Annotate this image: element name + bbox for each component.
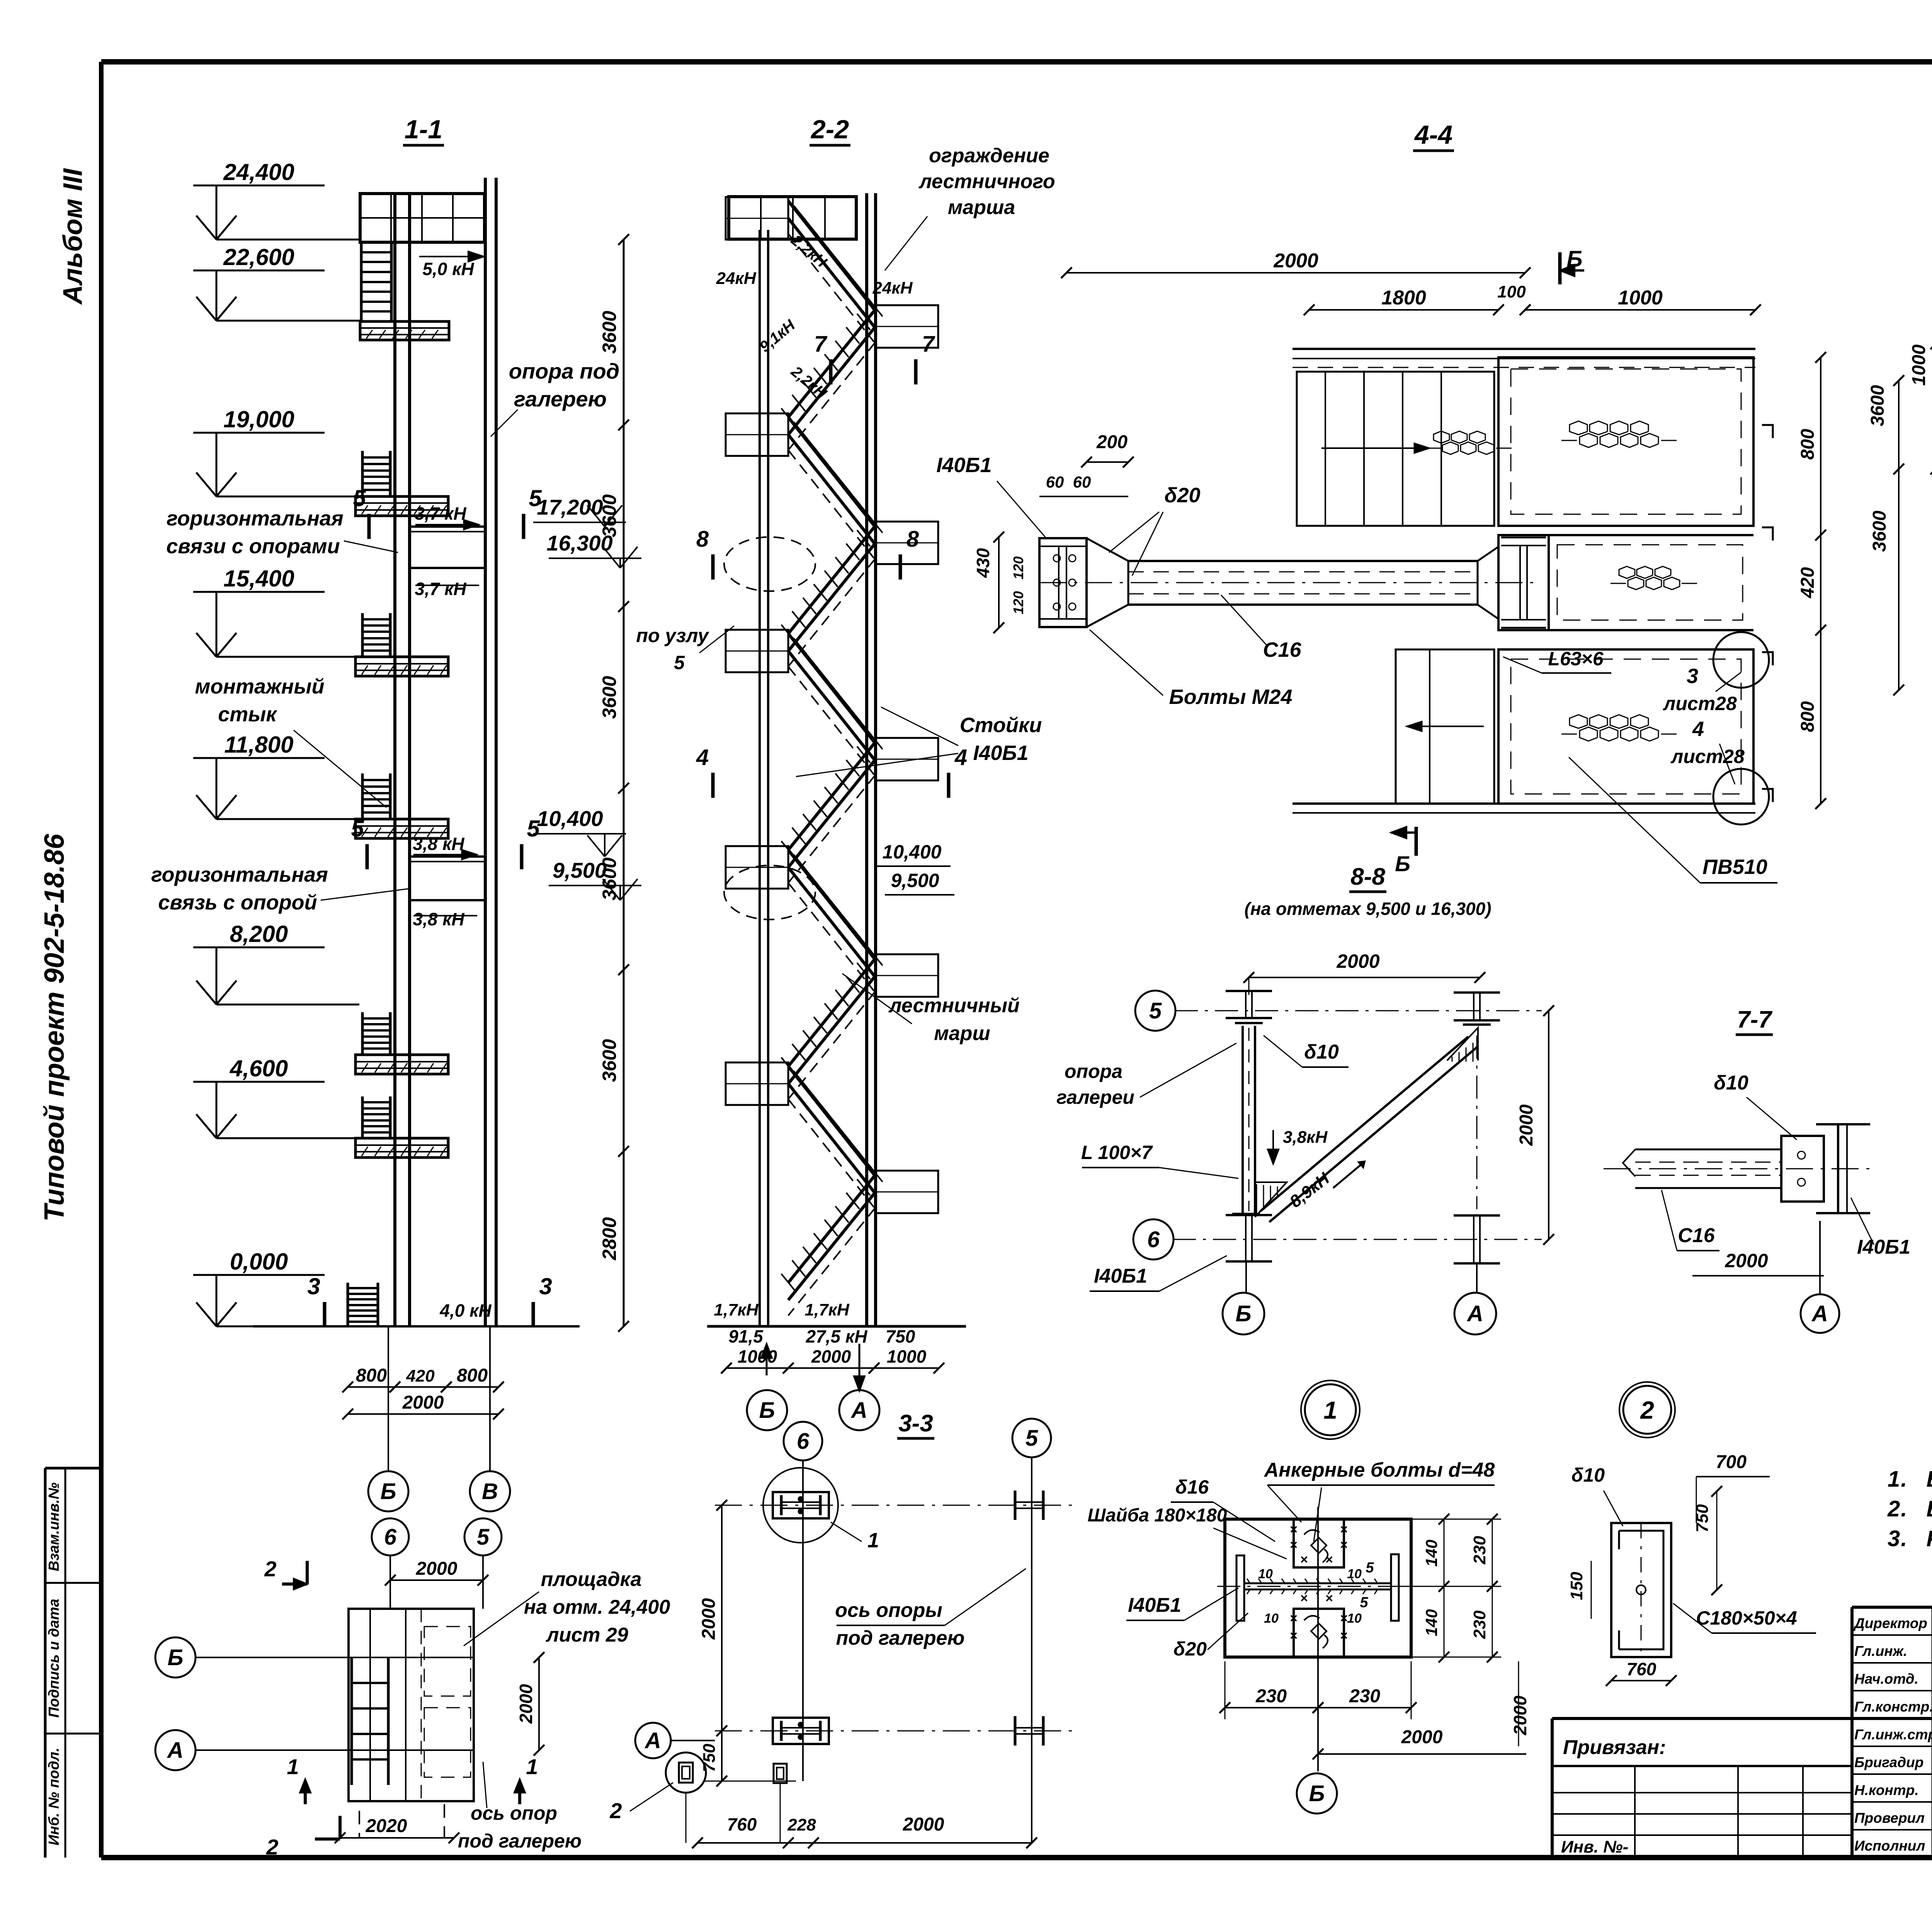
svg-text:1000: 1000 xyxy=(1618,287,1663,309)
svg-text:1: 1 xyxy=(526,1754,538,1779)
svg-text:430: 430 xyxy=(973,548,993,578)
svg-text:120: 120 xyxy=(1010,591,1026,614)
svg-text:1: 1 xyxy=(867,1529,879,1552)
svg-text:2000: 2000 xyxy=(1725,1250,1768,1271)
svg-text:2000: 2000 xyxy=(1510,1695,1530,1735)
svg-text:на отм. 24,400: на отм. 24,400 xyxy=(524,1596,670,1618)
svg-text:галереи: галереи xyxy=(1056,1086,1134,1108)
svg-text:3,7 кН: 3,7 кН xyxy=(415,503,466,524)
svg-text:760: 760 xyxy=(727,1814,757,1834)
svg-text:140: 140 xyxy=(1422,1609,1440,1636)
svg-text:под галерею: под галерею xyxy=(458,1830,582,1852)
svg-text:δ10: δ10 xyxy=(1571,1464,1605,1486)
svg-text:3: 3 xyxy=(307,1273,320,1299)
svg-text:2000: 2000 xyxy=(903,1814,944,1835)
svg-text:А: А xyxy=(1811,1301,1828,1326)
svg-text:150: 150 xyxy=(1567,1572,1586,1600)
svg-text:140: 140 xyxy=(1422,1540,1440,1567)
svg-text:3600: 3600 xyxy=(1869,510,1890,552)
svg-text:горизонтальная: горизонтальная xyxy=(167,507,344,530)
svg-text:L63×6: L63×6 xyxy=(1548,648,1604,670)
svg-text:700: 700 xyxy=(1716,1452,1747,1472)
svg-text:×: × xyxy=(1300,1591,1308,1606)
svg-text:2: 2 xyxy=(609,1798,622,1823)
svg-text:марша: марша xyxy=(948,196,1015,219)
svg-text:8: 8 xyxy=(696,527,709,552)
svg-text:6: 6 xyxy=(384,1525,397,1550)
svg-text:×: × xyxy=(1300,1552,1308,1567)
svg-text:δ20: δ20 xyxy=(1173,1638,1207,1660)
svg-text:×: × xyxy=(1290,1628,1298,1643)
svg-text:2020: 2020 xyxy=(366,1816,407,1836)
svg-text:1: 1 xyxy=(287,1754,299,1779)
svg-text:3600: 3600 xyxy=(599,311,620,354)
svg-text:С16: С16 xyxy=(1678,1224,1715,1247)
svg-text:230: 230 xyxy=(1470,1536,1489,1565)
svg-text:4-4: 4-4 xyxy=(1414,120,1452,150)
svg-text:3: 3 xyxy=(539,1273,552,1299)
svg-text:6: 6 xyxy=(797,1429,810,1454)
svg-text:Исполнил: Исполнил xyxy=(1854,1838,1925,1854)
svg-text:4: 4 xyxy=(954,745,967,770)
svg-text:2000: 2000 xyxy=(699,1598,719,1640)
svg-text:6: 6 xyxy=(1147,1227,1160,1252)
svg-text:Гл.инж.стр: Гл.инж.стр xyxy=(1854,1727,1932,1742)
svg-text:I40Б1: I40Б1 xyxy=(1128,1594,1181,1616)
svg-text:Н.контр.: Н.контр. xyxy=(1854,1782,1918,1798)
svg-text:230: 230 xyxy=(1349,1686,1380,1707)
svg-text:монтажный: монтажный xyxy=(195,675,324,698)
svg-text:3600: 3600 xyxy=(599,676,620,719)
svg-text:2000: 2000 xyxy=(402,1392,444,1413)
svg-text:Инв. №-: Инв. №- xyxy=(1561,1837,1628,1856)
svg-text:Гл.инж.: Гл.инж. xyxy=(1854,1643,1907,1659)
svg-text:×: × xyxy=(1290,1611,1298,1626)
svg-text:15,400: 15,400 xyxy=(223,566,294,592)
svg-text:I40Б1: I40Б1 xyxy=(973,741,1028,765)
svg-text:С180×50×4: С180×50×4 xyxy=(1696,1607,1797,1629)
svg-text:2: 2 xyxy=(264,1557,276,1581)
svg-text:8: 8 xyxy=(906,527,919,552)
svg-text:5: 5 xyxy=(353,485,366,511)
svg-text:Инб. № подл.: Инб. № подл. xyxy=(46,1747,62,1845)
svg-text:площадка: площадка xyxy=(541,1568,642,1591)
svg-text:4: 4 xyxy=(1692,717,1704,741)
svg-text:5: 5 xyxy=(477,1525,490,1550)
svg-text:Проверил: Проверил xyxy=(1854,1810,1925,1826)
svg-text:420: 420 xyxy=(1798,567,1818,598)
svg-text:галерею: галерею xyxy=(514,387,607,411)
svg-text:Подпись и дата: Подпись и дата xyxy=(46,1599,62,1718)
svg-text:3-3: 3-3 xyxy=(898,1410,933,1437)
svg-text:ПВ510: ПВ510 xyxy=(1702,855,1767,879)
svg-text:5: 5 xyxy=(1149,998,1162,1023)
svg-text:5: 5 xyxy=(1360,1594,1368,1611)
svg-text:24,400: 24,400 xyxy=(223,159,294,185)
svg-text:δ10: δ10 xyxy=(1304,1041,1339,1063)
svg-text:Б: Б xyxy=(1395,852,1410,876)
svg-text:120: 120 xyxy=(1010,556,1026,580)
svg-text:1: 1 xyxy=(1323,1396,1337,1424)
svg-text:10: 10 xyxy=(1347,1611,1362,1626)
svg-text:×: × xyxy=(1325,1591,1333,1606)
svg-text:δ16: δ16 xyxy=(1175,1476,1209,1498)
svg-text:60: 60 xyxy=(1073,473,1091,491)
svg-text:Шайба 180×180: Шайба 180×180 xyxy=(1088,1505,1227,1526)
svg-text:3,8кН: 3,8кН xyxy=(1283,1128,1328,1147)
svg-text:10: 10 xyxy=(1258,1567,1273,1581)
svg-text:11,800: 11,800 xyxy=(224,732,293,758)
svg-text:3,7 кН: 3,7 кН xyxy=(415,579,466,599)
svg-text:1800: 1800 xyxy=(1381,287,1426,309)
svg-text:800: 800 xyxy=(1798,429,1818,460)
svg-text:750: 750 xyxy=(1693,1504,1712,1533)
svg-text:Гл.констр.: Гл.констр. xyxy=(1854,1699,1932,1715)
svg-text:С16: С16 xyxy=(1263,638,1301,661)
svg-text:L 100×7: L 100×7 xyxy=(1081,1142,1153,1163)
svg-text:А: А xyxy=(644,1728,661,1753)
svg-text:3,8 кН: 3,8 кН xyxy=(413,909,464,929)
svg-text:ось опоры: ось опоры xyxy=(835,1599,942,1622)
svg-text:опора: опора xyxy=(1065,1061,1122,1082)
svg-text:60: 60 xyxy=(1046,473,1064,491)
svg-text:Бригадир: Бригадир xyxy=(1854,1754,1923,1770)
svg-text:В: В xyxy=(482,1479,498,1504)
svg-text:2000: 2000 xyxy=(811,1346,851,1367)
svg-text:δ10: δ10 xyxy=(1714,1072,1748,1094)
svg-text:I40Б1: I40Б1 xyxy=(1857,1236,1910,1258)
svg-text:по узлу: по узлу xyxy=(636,625,709,646)
svg-text:марш: марш xyxy=(934,1022,990,1045)
svg-text:лист 29: лист 29 xyxy=(545,1624,628,1646)
svg-text:1. Все швы h4, кроме огов: 1. Все швы h4, кроме оговоренных. xyxy=(1888,1467,1932,1492)
svg-text:24кН: 24кН xyxy=(872,279,913,297)
svg-text:760: 760 xyxy=(1627,1659,1656,1679)
svg-text:1000: 1000 xyxy=(887,1346,927,1367)
svg-text:8,200: 8,200 xyxy=(230,921,288,947)
svg-text:Альбом III: Альбом III xyxy=(58,168,88,305)
svg-text:800: 800 xyxy=(1798,701,1818,732)
svg-text:22,600: 22,600 xyxy=(223,244,294,270)
svg-text:2000: 2000 xyxy=(1273,250,1318,272)
svg-text:4,600: 4,600 xyxy=(230,1056,288,1081)
svg-text:×: × xyxy=(1290,1538,1298,1552)
svg-text:91,5: 91,5 xyxy=(728,1326,764,1346)
svg-text:5: 5 xyxy=(527,816,540,841)
svg-text:Привязан:: Привязан: xyxy=(1563,1736,1666,1759)
svg-text:800: 800 xyxy=(457,1365,488,1386)
svg-text:Типовой проект 902-5-18.86: Типовой проект 902-5-18.86 xyxy=(39,833,70,1222)
svg-text:800: 800 xyxy=(356,1365,387,1386)
svg-text:2000: 2000 xyxy=(1401,1727,1443,1747)
svg-text:×: × xyxy=(1325,1552,1333,1567)
svg-text:опора под: опора под xyxy=(509,359,620,383)
svg-text:3600: 3600 xyxy=(599,857,620,900)
svg-text:связи с опорами: связи с опорами xyxy=(166,535,340,558)
svg-text:3,8 кН: 3,8 кН xyxy=(413,834,464,854)
svg-text:2000: 2000 xyxy=(1516,1104,1537,1146)
svg-text:Б: Б xyxy=(167,1645,183,1670)
svg-text:750: 750 xyxy=(700,1744,719,1772)
svg-text:10: 10 xyxy=(1347,1567,1362,1581)
svg-text:24кН: 24кН xyxy=(716,269,756,288)
svg-text:19,000: 19,000 xyxy=(223,406,294,432)
svg-text:Б: Б xyxy=(759,1398,775,1423)
svg-text:горизонтальная: горизонтальная xyxy=(151,863,328,886)
svg-text:3. Рассматривать совместно: 3. Рассматривать совместно с листами 28,… xyxy=(1888,1526,1932,1551)
svg-text:×: × xyxy=(1290,1522,1298,1537)
svg-text:228: 228 xyxy=(787,1815,816,1834)
svg-text:А: А xyxy=(167,1738,184,1763)
svg-text:Б: Б xyxy=(1309,1781,1325,1806)
svg-text:5,0 кН: 5,0 кН xyxy=(422,259,474,279)
svg-text:7-7: 7-7 xyxy=(1737,1006,1772,1033)
svg-text:×: × xyxy=(1340,1538,1348,1552)
svg-text:Взам.инв.№: Взам.инв.№ xyxy=(46,1482,62,1571)
svg-text:2000: 2000 xyxy=(416,1559,457,1579)
svg-text:1000: 1000 xyxy=(1909,344,1929,386)
svg-text:420: 420 xyxy=(406,1367,435,1385)
svg-text:100: 100 xyxy=(1497,282,1526,301)
svg-text:5: 5 xyxy=(1366,1560,1374,1576)
svg-text:1,7кН: 1,7кН xyxy=(714,1300,759,1319)
svg-text:5: 5 xyxy=(529,485,542,511)
svg-text:1-1: 1-1 xyxy=(405,115,442,144)
svg-text:Б: Б xyxy=(1235,1301,1251,1326)
svg-text:(на отметах 9,500 и 16,300): (на отметах 9,500 и 16,300) xyxy=(1244,899,1491,919)
svg-text:3600: 3600 xyxy=(599,1039,620,1082)
svg-text:0,000: 0,000 xyxy=(230,1249,288,1275)
svg-text:под галерею: под галерею xyxy=(836,1627,965,1649)
svg-text:лист28: лист28 xyxy=(1670,746,1745,767)
svg-text:4,0 кН: 4,0 кН xyxy=(439,1300,492,1321)
svg-text:17,200: 17,200 xyxy=(537,495,603,519)
svg-text:×: × xyxy=(1340,1611,1348,1626)
svg-text:Б: Б xyxy=(380,1479,396,1504)
svg-text:Директор: Директор xyxy=(1853,1615,1927,1631)
svg-text:3600: 3600 xyxy=(1867,385,1888,426)
svg-text:3600: 3600 xyxy=(599,494,620,537)
svg-text:750: 750 xyxy=(886,1326,915,1346)
svg-text:связь с опорой: связь с опорой xyxy=(158,891,317,914)
svg-text:Болты М24: Болты М24 xyxy=(1169,685,1293,709)
svg-text:230: 230 xyxy=(1255,1686,1287,1707)
svg-text:9,500: 9,500 xyxy=(891,870,939,891)
svg-text:Анкерные болты d=48: Анкерные болты d=48 xyxy=(1264,1459,1495,1481)
svg-text:2. Все болты м16. кроме ог: 2. Все болты м16. кроме оговоренных. xyxy=(1887,1496,1932,1521)
svg-text:I40Б1: I40Б1 xyxy=(1094,1265,1147,1287)
svg-text:δ20: δ20 xyxy=(1164,484,1200,507)
svg-text:230: 230 xyxy=(1470,1610,1489,1639)
svg-text:2000: 2000 xyxy=(516,1684,536,1724)
svg-text:Нач.отд.: Нач.отд. xyxy=(1854,1671,1918,1687)
svg-text:3: 3 xyxy=(1687,665,1698,688)
svg-text:5: 5 xyxy=(674,652,685,673)
svg-text:стык: стык xyxy=(218,703,277,726)
svg-text:200: 200 xyxy=(1096,432,1128,452)
svg-text:4: 4 xyxy=(696,745,709,770)
svg-text:10: 10 xyxy=(1264,1611,1279,1626)
svg-text:7: 7 xyxy=(922,331,935,357)
svg-text:×: × xyxy=(1340,1522,1348,1537)
svg-text:лист28: лист28 xyxy=(1663,693,1737,714)
svg-text:2: 2 xyxy=(266,1835,278,1859)
svg-text:2000: 2000 xyxy=(1336,950,1379,972)
svg-text:10,400: 10,400 xyxy=(537,806,603,831)
svg-text:ось опор: ось опор xyxy=(471,1802,557,1824)
svg-text:А: А xyxy=(1466,1301,1483,1326)
svg-text:лестничного: лестничного xyxy=(918,170,1055,193)
svg-text:2800: 2800 xyxy=(599,1217,620,1260)
svg-text:27,5 кН: 27,5 кН xyxy=(806,1326,868,1346)
svg-text:5: 5 xyxy=(1026,1426,1038,1451)
svg-text:А: А xyxy=(850,1398,867,1423)
svg-text:8-8: 8-8 xyxy=(1350,863,1385,890)
svg-text:I40Б1: I40Б1 xyxy=(936,454,992,477)
svg-text:2-2: 2-2 xyxy=(810,115,849,144)
svg-text:10,400: 10,400 xyxy=(883,841,942,863)
svg-text:2: 2 xyxy=(1640,1396,1654,1424)
svg-text:Стойки: Стойки xyxy=(960,714,1042,737)
svg-text:×: × xyxy=(1340,1628,1348,1643)
svg-text:лестничный: лестничный xyxy=(888,994,1019,1017)
svg-text:7: 7 xyxy=(814,331,828,357)
svg-text:ограждение: ограждение xyxy=(929,144,1049,167)
svg-text:5: 5 xyxy=(351,816,364,841)
svg-text:1,7кН: 1,7кН xyxy=(804,1300,849,1319)
